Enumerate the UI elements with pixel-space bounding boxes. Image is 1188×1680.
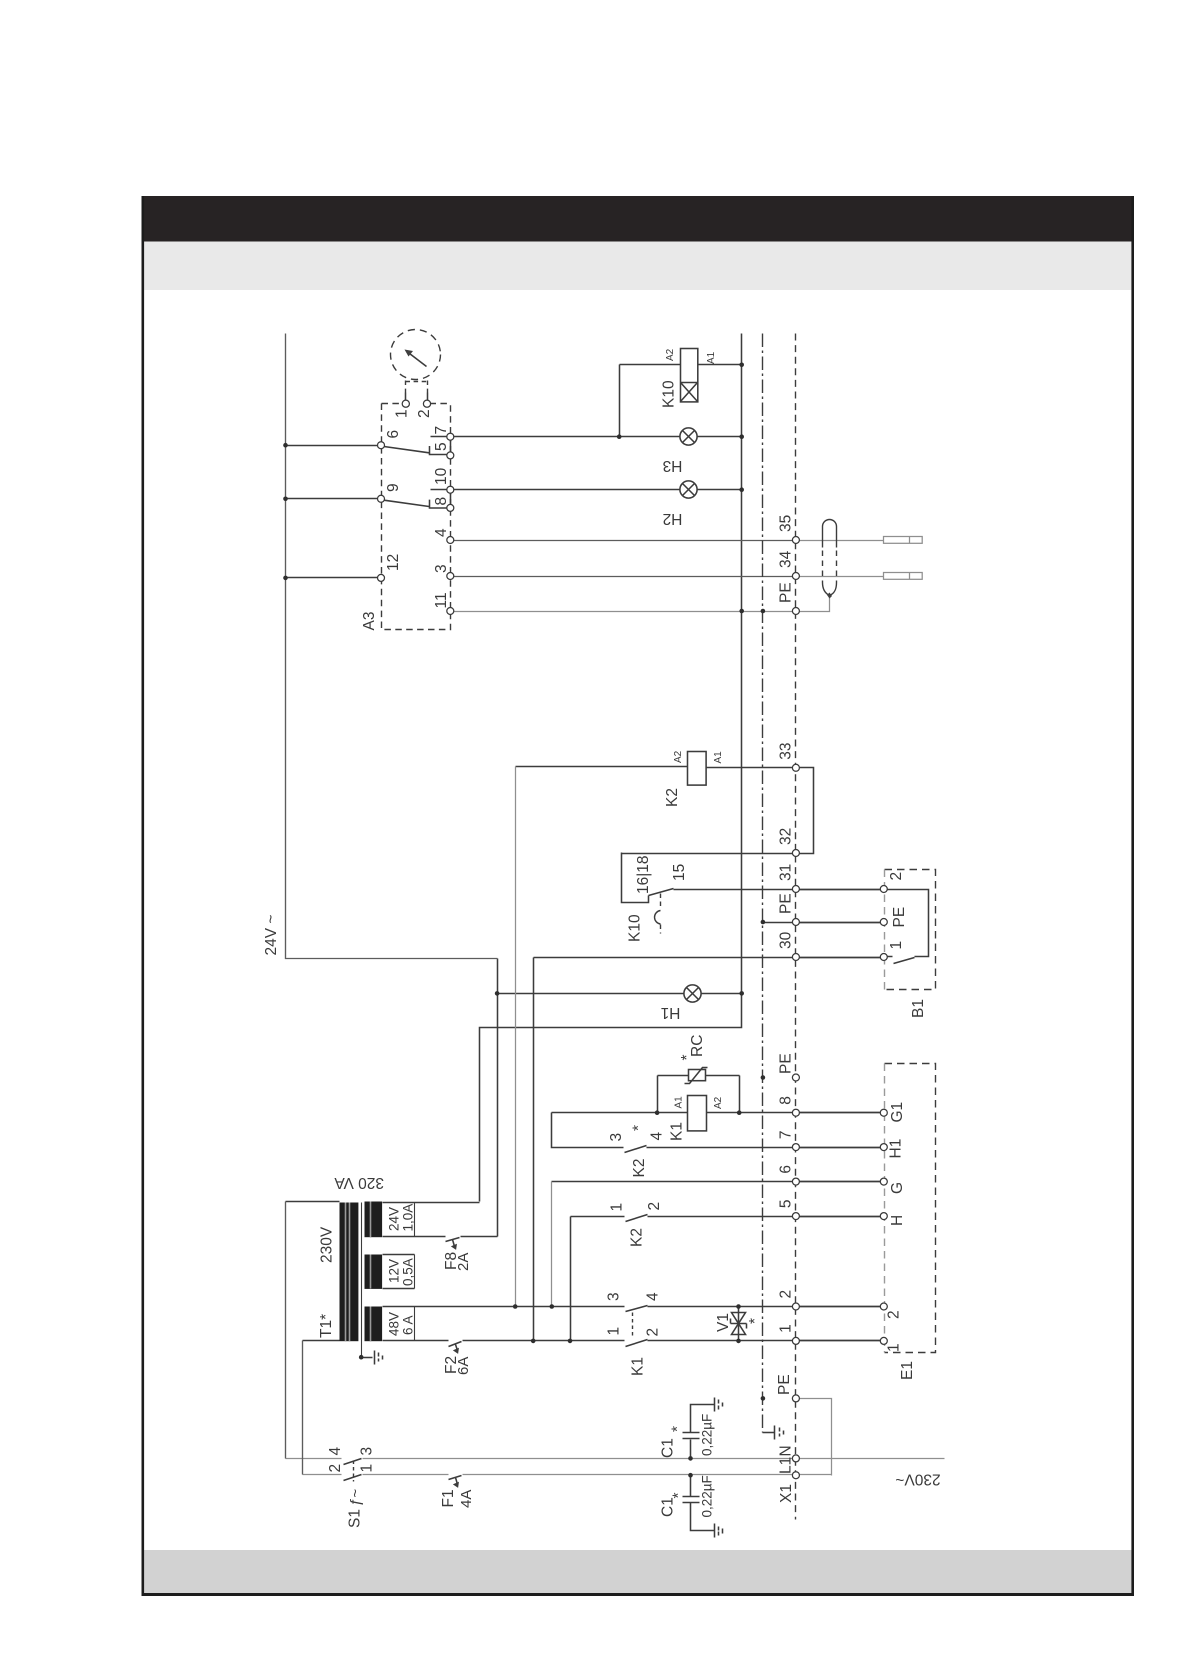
svg-text:K2: K2: [629, 1228, 646, 1247]
svg-text:12: 12: [385, 554, 402, 571]
svg-text:24V ~: 24V ~: [263, 915, 280, 956]
svg-text:H: H: [889, 1215, 906, 1226]
svg-text:*: *: [747, 1318, 764, 1324]
svg-text:K1: K1: [630, 1357, 647, 1376]
svg-text:PE: PE: [776, 1374, 793, 1395]
svg-text:320 VA: 320 VA: [334, 1174, 384, 1191]
svg-text:A3: A3: [361, 612, 378, 631]
svg-text:H2: H2: [663, 510, 683, 527]
svg-text:2: 2: [886, 1310, 903, 1319]
svg-text:V1: V1: [715, 1313, 732, 1332]
svg-text:2: 2: [416, 409, 433, 418]
svg-text:2: 2: [645, 1328, 662, 1337]
svg-text:4A: 4A: [458, 1490, 475, 1508]
svg-text:5: 5: [433, 442, 450, 451]
svg-text:5: 5: [778, 1199, 795, 1208]
svg-text:B1: B1: [910, 999, 927, 1018]
svg-text:9: 9: [385, 483, 402, 492]
svg-text:3: 3: [608, 1133, 625, 1142]
svg-text:4: 4: [645, 1292, 662, 1301]
svg-text:E1: E1: [899, 1361, 916, 1380]
svg-text:*: *: [670, 1426, 687, 1432]
svg-text:4: 4: [327, 1447, 344, 1456]
svg-text:16|18: 16|18: [635, 855, 652, 894]
svg-text:35: 35: [778, 515, 795, 532]
svg-text:3: 3: [359, 1447, 376, 1456]
svg-text:10: 10: [433, 467, 450, 485]
svg-text:A1: A1: [713, 751, 724, 764]
svg-text:K2: K2: [664, 788, 681, 807]
svg-text:11: 11: [433, 592, 450, 608]
svg-text:3: 3: [433, 564, 450, 573]
svg-text:PE: PE: [778, 893, 795, 914]
svg-text:0,5A: 0,5A: [401, 1258, 416, 1286]
svg-text:7: 7: [778, 1130, 795, 1139]
svg-text:33: 33: [778, 743, 795, 760]
svg-text:1: 1: [888, 941, 905, 950]
svg-text:*: *: [679, 1054, 696, 1060]
svg-text:6: 6: [778, 1165, 795, 1174]
svg-text:24V: 24V: [387, 1207, 402, 1231]
svg-text:3: 3: [606, 1292, 623, 1301]
svg-text:31: 31: [778, 864, 795, 881]
svg-text:K10: K10: [627, 914, 644, 942]
svg-text:F1: F1: [440, 1489, 457, 1507]
svg-text:12V: 12V: [387, 1259, 402, 1283]
svg-text:1: 1: [606, 1327, 623, 1336]
svg-text:0,22µF: 0,22µF: [700, 1414, 715, 1456]
svg-text:1: 1: [886, 1343, 903, 1352]
svg-text:ƒ~: ƒ~: [347, 1489, 364, 1506]
svg-text:230V: 230V: [319, 1226, 336, 1263]
svg-text:PE: PE: [891, 907, 908, 928]
svg-text:15: 15: [671, 864, 688, 881]
svg-text:G1: G1: [889, 1102, 906, 1123]
svg-text:2A: 2A: [455, 1253, 472, 1271]
svg-text:6A: 6A: [455, 1357, 472, 1375]
svg-text:K10: K10: [661, 380, 678, 408]
svg-text:1: 1: [359, 1464, 376, 1473]
svg-text:1: 1: [609, 1203, 626, 1212]
svg-text:32: 32: [778, 828, 795, 845]
svg-text:C1: C1: [660, 1438, 677, 1458]
svg-text:6 A: 6 A: [401, 1315, 416, 1335]
svg-text:230V~: 230V~: [895, 1470, 940, 1487]
svg-text:34: 34: [778, 550, 795, 568]
svg-text:G: G: [889, 1182, 906, 1194]
svg-text:A1: A1: [706, 351, 717, 364]
svg-text:L1: L1: [778, 1457, 795, 1474]
svg-text:1: 1: [394, 409, 411, 418]
svg-text:48V: 48V: [387, 1312, 402, 1336]
svg-text:A2: A2: [665, 348, 676, 361]
svg-text:K1: K1: [669, 1122, 686, 1141]
svg-text:*: *: [671, 1492, 688, 1498]
svg-text:4: 4: [649, 1132, 666, 1141]
svg-text:*: *: [631, 1125, 648, 1131]
svg-text:A1: A1: [674, 1096, 685, 1109]
svg-text:2: 2: [888, 872, 905, 881]
svg-text:PE: PE: [778, 582, 795, 603]
svg-text:7: 7: [433, 426, 450, 435]
svg-text:T1*: T1*: [318, 1314, 335, 1338]
svg-text:K2: K2: [631, 1159, 648, 1178]
svg-text:2: 2: [646, 1202, 663, 1211]
svg-text:C1: C1: [660, 1497, 677, 1517]
svg-text:2: 2: [327, 1464, 344, 1473]
svg-text:X1: X1: [778, 1484, 795, 1503]
svg-text:N: N: [778, 1445, 795, 1456]
svg-text:6: 6: [385, 430, 402, 439]
svg-text:H1: H1: [888, 1139, 905, 1159]
svg-text:H1: H1: [661, 1004, 681, 1021]
svg-text:H3: H3: [663, 457, 683, 474]
svg-text:8: 8: [433, 497, 450, 506]
svg-text:8: 8: [778, 1096, 795, 1105]
svg-text:A2: A2: [673, 750, 684, 763]
svg-text:2: 2: [778, 1290, 795, 1299]
svg-text:S1: S1: [347, 1509, 364, 1528]
svg-text:4: 4: [433, 528, 450, 537]
svg-text:RC: RC: [689, 1035, 706, 1057]
svg-text:1: 1: [778, 1324, 795, 1333]
svg-text:PE: PE: [778, 1053, 795, 1074]
svg-text:0,22µF: 0,22µF: [700, 1475, 715, 1517]
svg-text:A2: A2: [713, 1096, 724, 1109]
svg-text:1,0A: 1,0A: [401, 1204, 416, 1232]
svg-text:30: 30: [778, 931, 795, 949]
